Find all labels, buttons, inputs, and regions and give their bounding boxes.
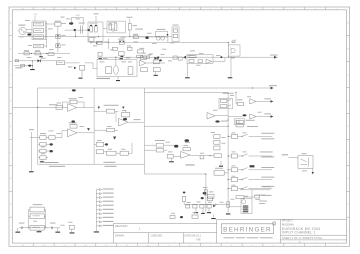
bus wire y92.3 (144, 91, 228, 93)
rail dark junction (157, 56, 159, 58)
aux lower enclosure (234, 119, 244, 125)
connector pin list ground (94, 231, 99, 232)
fader column resistor R42 (214, 146, 220, 150)
connector pin list vertical wire (95, 190, 97, 232)
line lower ground (155, 72, 157, 75)
power left box (186, 205, 190, 208)
logo tagline text (224, 237, 235, 238)
high EQ cap blob C15 (123, 118, 127, 120)
value labels phantom cluster (66, 18, 71, 21)
psu cap C21 (50, 227, 52, 230)
ground symbol mic stage (40, 54, 42, 57)
relay K3 box (34, 35, 44, 39)
capacitor C6 (178, 57, 182, 60)
relay contacts (301, 159, 307, 162)
line buffer junction blob (159, 59, 161, 61)
U2A feedback label (69, 97, 77, 100)
mid EQ cap C18 (185, 139, 190, 142)
line input ground (30, 69, 35, 70)
op-amp U2B (68, 129, 78, 137)
relay assembly enclosure (32, 21, 46, 40)
power left vertical box (183, 196, 186, 201)
jack contact box 2 (128, 67, 133, 75)
value labels mid EQ (166, 141, 171, 144)
jack barrel (114, 66, 119, 75)
contact set inside jack 1 (90, 26, 93, 32)
mute bus arrow blob (220, 56, 222, 58)
diode D3 (154, 57, 157, 60)
low EQ resistor R25 (40, 136, 46, 140)
rail box 2 (144, 56, 150, 59)
value labels relay box (302, 170, 307, 173)
fader column resistor R40 (214, 135, 220, 139)
power row 7 label (263, 185, 271, 188)
high EQ supply arrow 1 (98, 107, 100, 109)
power section vertical wire (205, 174, 207, 212)
border grid tick marks left/right (9, 35, 12, 37)
svg-text:+48V: +48V (75, 15, 80, 17)
svg-text:MX-01.1: MX-01.1 (192, 234, 202, 237)
mid EQ resistor R38 (200, 156, 204, 159)
switch row 1b label (261, 137, 274, 140)
wire gain pot to right (167, 36, 169, 42)
aux switch row 1 (221, 99, 227, 102)
mid EQ wires (144, 144, 156, 146)
psu box 1 (30, 207, 44, 212)
wire relay outputs vertical bus (46, 22, 48, 48)
mid EQ cap blob C17 (174, 145, 178, 148)
psu box 2 (30, 214, 44, 219)
bottom small comps (170, 216, 175, 219)
wire filter to pad (65, 62, 80, 64)
capacitor C5 (140, 56, 146, 60)
op-amp U2A output wire (77, 107, 94, 109)
jack box ground (117, 77, 119, 80)
pad diode (74, 67, 77, 70)
resistor R8 with bracket (97, 41, 102, 44)
aux feed vertical wire (235, 92, 237, 104)
switch row 5 (228, 188, 231, 190)
high EQ cap blob C16 (105, 143, 108, 145)
pad labels (68, 66, 72, 69)
junction node mic bus (31, 53, 32, 54)
fader column ground (220, 161, 222, 165)
vertical wire right branch (57, 26, 59, 52)
psu extra ground (71, 229, 73, 232)
psu ground left (17, 228, 19, 231)
low EQ wires (38, 137, 40, 139)
mid EQ resistor R37 (167, 154, 173, 158)
line input upper label (27, 56, 32, 59)
low EQ resistor R27b (40, 156, 46, 160)
value labels aux cluster (230, 94, 234, 97)
diode D2 with resistor (56, 44, 60, 48)
relay ground arrow (312, 168, 314, 172)
wire mute stage output (213, 60, 225, 62)
polarized capacitor C1 (27, 33, 31, 35)
psu cap C20 (20, 227, 22, 230)
contact set inside jack 2 (109, 24, 111, 31)
connector pin 1 (96, 189, 99, 191)
resistor R11 (119, 52, 125, 56)
resistor R10 (98, 52, 102, 56)
resistor chain vertical R5 (128, 24, 131, 31)
line jack enclosure (97, 60, 137, 77)
connector pin 9 (96, 221, 99, 223)
resistor R14 (189, 56, 196, 58)
matrix top resistor R47 (236, 120, 243, 123)
arrow mute bus left (183, 56, 186, 59)
resistor R6 (133, 36, 138, 39)
value labels fader cluster (93, 45, 97, 48)
resistor R23 (56, 106, 63, 110)
power resistor R55 (207, 197, 212, 201)
high EQ resistor R36 (106, 151, 116, 155)
wire mic connector to relays (26, 29, 32, 31)
line buffer op-amp U7A (140, 60, 146, 66)
resistor R4 (48, 53, 54, 56)
registered trademark symbol (273, 222, 276, 225)
feed wire from EQ to power section (143, 164, 145, 174)
svg-text:+15V: +15V (33, 14, 38, 16)
mid EQ ground (171, 158, 173, 161)
aux row B dark blob (243, 114, 247, 116)
revision box outline (114, 222, 217, 224)
switch row 3 (228, 169, 231, 171)
power resistor R53 (200, 205, 204, 208)
svg-text:CHECKED: CHECKED (151, 234, 163, 237)
pad ground (81, 70, 83, 77)
low EQ resistor R28 (49, 136, 55, 140)
feedback capacitor C13 (71, 120, 75, 122)
feedback capacitor C11 (72, 89, 76, 91)
line input wire (14, 60, 56, 62)
value labels EQ section (57, 102, 62, 105)
feedback loop wires (62, 102, 64, 108)
EQ left outside ground (29, 171, 34, 172)
EQ mid divider (93, 88, 95, 164)
value labels psu cluster (33, 220, 37, 223)
connector pin 2 (96, 193, 99, 195)
wire to relay driver (229, 206, 241, 208)
connector pin 10 (96, 225, 99, 227)
connector pin 4 (96, 201, 99, 203)
value labels line input row (41, 57, 46, 60)
fader pot P1 (119, 41, 124, 44)
arrow aux B (271, 115, 274, 118)
low EQ cap blob C12 (50, 143, 53, 145)
arrow right end y88 (271, 87, 274, 90)
mic bus wire lower (18, 53, 70, 55)
power ground left (195, 208, 197, 212)
switch row 2b label (261, 156, 274, 159)
ground symbol below mute 1 (187, 64, 189, 77)
diode D1 with resistor (56, 35, 60, 39)
line lower resistor 1 (141, 68, 148, 72)
mute bus column lower (227, 199, 229, 213)
low EQ cap blob C12b (50, 150, 53, 152)
high EQ lower wires (104, 144, 105, 146)
power diode D5 (213, 205, 216, 208)
power resistor R52 (193, 205, 197, 208)
aux opamp row A U5A (250, 99, 256, 104)
high EQ band label (104, 162, 116, 163)
switch row 4 (228, 179, 231, 181)
matrix top labels (247, 125, 258, 128)
wire between jacks (103, 28, 107, 30)
EQ band label text (45, 162, 59, 163)
phantom feed bracket wire (71, 17, 73, 22)
relay K2 box (34, 29, 44, 33)
svg-text:BEHRINGER: BEHRINGER (223, 226, 272, 233)
psu bus wire (19, 227, 60, 229)
power resistor R51 vertical (204, 190, 207, 195)
line input filter box (56, 61, 64, 65)
connector pin 3 (96, 197, 99, 199)
value labels mute cluster (190, 50, 195, 53)
svg-text:INPUT CHANNEL 1: INPUT CHANNEL 1 (282, 231, 316, 235)
EQ pot wiper arrow (87, 128, 90, 131)
pan pot box (214, 171, 224, 176)
high EQ wires (94, 110, 106, 112)
feedback resistor R24 (70, 100, 77, 104)
aux row B output wire (228, 116, 242, 118)
line input label (15, 67, 22, 68)
connector pin 5 (96, 205, 99, 207)
long wire y126.2 (144, 125, 228, 127)
mid EQ feedback resistor R49b (183, 148, 190, 151)
line buffer series box (153, 60, 159, 64)
vertical wire x75 (74, 30, 76, 36)
mid EQ pot box 2 (156, 148, 163, 152)
relay driver labels (259, 200, 267, 203)
ground EQ left (41, 159, 43, 161)
connector pin 7 (96, 213, 99, 215)
BEHRINGER logo box (222, 224, 274, 234)
U2B feedback label (69, 121, 77, 124)
aux opamp row B U5B (250, 114, 256, 119)
relay K1 box (34, 22, 44, 26)
resistor R9 (112, 47, 117, 50)
op-amp U3A (119, 118, 129, 126)
aux labels (223, 92, 234, 95)
resistor R3 (35, 52, 40, 55)
U4A dark blob below (215, 120, 219, 122)
high EQ mid resistor R32 (106, 129, 114, 132)
insert jack enclosure 1 (88, 22, 103, 42)
arrow aux A (271, 100, 274, 103)
resistor R9b (128, 47, 133, 50)
value labels switch matrix (232, 132, 236, 135)
connector pin 6 (96, 209, 99, 211)
psu ground right (57, 228, 59, 231)
low EQ resistor R27 (40, 149, 46, 153)
line input second row (14, 65, 32, 67)
svg-text:7-96: 7-96 (196, 238, 202, 241)
power ground right (208, 208, 210, 212)
jack label below (97, 78, 111, 79)
line buffer output wire (146, 62, 165, 64)
mute column resistor R56 vertical (227, 202, 230, 207)
relay driver transistor Q2 (242, 200, 246, 204)
ground symbol below mute 2 (230, 63, 232, 77)
high EQ labels top (104, 104, 119, 107)
gain label text (135, 28, 143, 31)
polarized capacitor C2 (69, 22, 73, 24)
line lower resistor 2 (153, 68, 160, 72)
aux row A output wire (256, 100, 271, 102)
power row 8 label (261, 194, 272, 197)
matrix bottom resistor (236, 196, 244, 199)
mute bus wire (97, 56, 278, 58)
phantom junction blob 2 (87, 29, 89, 31)
aux pot box right (172, 27, 179, 42)
fader ground marks (99, 58, 103, 59)
high EQ resistor R34 (96, 142, 103, 146)
power cap blob (203, 192, 207, 194)
post-EQ op-amp U4A (207, 113, 215, 120)
dark switch indicator (250, 165, 255, 167)
low EQ resistor R26 (40, 142, 46, 146)
matrix top resistor R48 (236, 124, 243, 127)
resistor R15b (198, 60, 203, 63)
psu junction dots (28, 227, 29, 228)
relay input wire (289, 157, 299, 159)
aux send enclosure (219, 98, 233, 109)
high EQ output wire (128, 121, 144, 123)
resistor R13 (173, 56, 177, 59)
vertical wire fader (90, 41, 92, 44)
ground near title block corner (213, 215, 215, 218)
polarized capacitor C4 (145, 36, 148, 39)
jack contact box (106, 67, 112, 74)
title block outline (217, 218, 347, 220)
aux opamp row A resistor R45 (238, 102, 244, 105)
high EQ supply arrow 2 (122, 107, 124, 109)
svg-text:DATE: DATE (185, 234, 192, 237)
resistor R2 (24, 52, 29, 55)
bus wire y88 continuation (144, 87, 271, 89)
op-amp U2B output wire (77, 132, 94, 134)
dual gain pot (156, 31, 168, 36)
power rail wire (184, 203, 229, 205)
aux switch row 2 (221, 105, 227, 108)
capacitor C3 pair tall (79, 26, 81, 34)
EQ section enclosure (38, 88, 145, 164)
wire pad to jack box (85, 62, 93, 64)
resistor R12 (137, 50, 143, 53)
EQ input wire (13, 107, 68, 109)
value labels top-left cluster (25, 19, 30, 22)
svg-text:SHEET 1 OF 17 SHEETS TOTAL: SHEET 1 OF 17 SHEETS TOTAL (282, 236, 323, 240)
high EQ resistor R35 (96, 150, 103, 154)
psu extra box (69, 225, 74, 229)
relay driver feed wire (251, 190, 253, 199)
svg-text:REVISION: REVISION (115, 224, 128, 228)
wire to resistor R1 (47, 23, 55, 25)
power cap blob C22 (201, 197, 204, 199)
resistor R15 (189, 60, 194, 63)
wire fader row (90, 42, 168, 44)
mid EQ op-amp U3B (181, 152, 191, 159)
op-amp U1A (206, 59, 212, 63)
mute column ground (226, 213, 230, 214)
psu side wires (29, 209, 30, 211)
XLR mic connector (19, 27, 26, 34)
feedback resistor R29 (70, 125, 77, 129)
op-amp U2A (68, 104, 77, 112)
mute opamp enclosure (187, 55, 213, 64)
relay K4 box (34, 44, 44, 48)
high EQ dark wiper (113, 137, 116, 140)
high EQ resistor R36b (120, 151, 128, 155)
switch row 2 (228, 155, 231, 157)
resistor R1 (55, 22, 61, 26)
line input series box (15, 60, 18, 62)
relay driver enclosure (241, 199, 252, 214)
arrow mute bus right end (274, 56, 277, 59)
connector pin 8 (96, 217, 99, 219)
sheet divider line (281, 234, 347, 236)
svg-text:PROJECT: PROJECT (282, 221, 293, 223)
border grid tick marks top/bottom (32, 7, 34, 10)
sheet lower divider (281, 239, 347, 241)
psu ground mid (38, 229, 40, 232)
relay/jack box K5 (298, 156, 313, 169)
mid EQ label (186, 164, 195, 165)
rail box 1 (137, 55, 143, 58)
power ground mid (202, 208, 204, 213)
insert jack enclosure 2 (107, 21, 125, 33)
svg-text:DRAWN: DRAWN (115, 234, 124, 237)
phantom wire y30 (65, 29, 88, 31)
value labels power cluster (203, 186, 208, 189)
pad resistor (80, 65, 85, 70)
phantom junction blob 1 (74, 29, 76, 31)
EQ left outside wire (30, 132, 32, 171)
value labels gain row (147, 32, 152, 35)
main bus wire y36.6 (18, 36, 160, 38)
wire U4A output (215, 115, 228, 117)
mid EQ pot box 1 (156, 143, 163, 147)
fader column resistor R41 (214, 140, 220, 144)
power resistor R54 (207, 205, 211, 208)
mid EQ resistor R39 pan box (214, 154, 222, 158)
psu box 3 (30, 225, 44, 230)
gain stage wire (132, 36, 168, 38)
high EQ resistor R31 (122, 113, 130, 117)
main signal bus y42.5 (168, 42, 228, 44)
phantom supply stub (95, 16, 97, 22)
relay coil striped (243, 206, 249, 207)
high EQ resistor R30 (106, 109, 114, 113)
switch row 1 (228, 135, 231, 137)
power row 8 resistor R57 (255, 195, 260, 198)
power resistor R50 (208, 195, 214, 199)
switch matrix vertical bus (227, 92, 229, 199)
line input diode D4 (37, 59, 40, 62)
